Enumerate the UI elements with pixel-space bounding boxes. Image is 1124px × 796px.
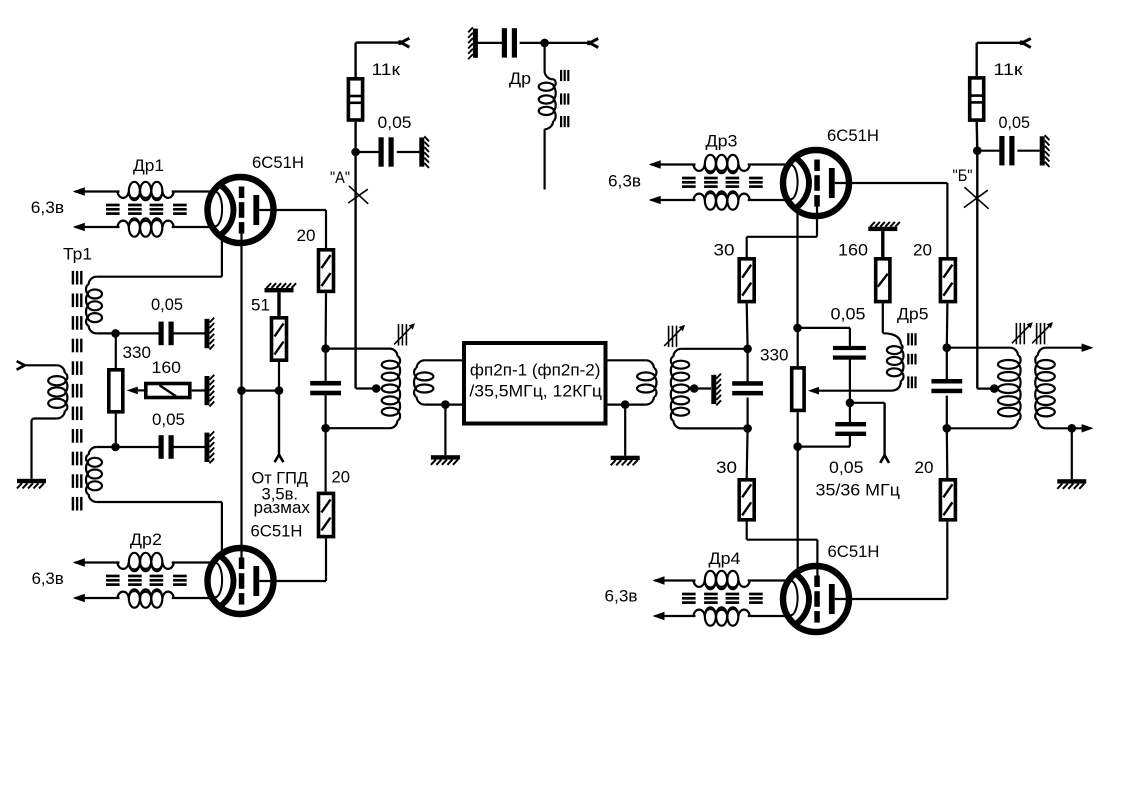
capacitor 0,05 (lower, Тр1) [159, 435, 164, 459]
triode V4 6С51Н [783, 566, 849, 632]
ground (chassis) for 0,05 right [1040, 136, 1045, 165]
wire: output tank top to capacitor [946, 348, 948, 381]
svg-text:330: 330 [123, 344, 152, 362]
node: 51 / ГПД junction [275, 386, 284, 395]
wire: potentiometer 330 to node [115, 414, 117, 447]
wire: capacitor to ground (right) [1017, 150, 1039, 152]
svg-text:Др5: Др5 [897, 306, 929, 324]
svg-text:51: 51 [251, 297, 270, 315]
wire: resistor 30 to tank top [746, 303, 749, 348]
wire: node to capacitor 0,05 [356, 151, 381, 153]
ground (chassis, overhead) for 51 [265, 288, 294, 292]
wire: 0,05 lower to ground [172, 446, 206, 448]
wire: coupling coil top to filter [425, 359, 462, 361]
wire: resistor 20 to output tank top [946, 303, 949, 347]
wire: capacitor to tank bottom (right) [746, 398, 748, 429]
wire: potentiometer to bottom node [797, 412, 799, 446]
inductor Тр1 primary winding [57, 365, 65, 373]
wire: bottom node to V4 cathode [797, 447, 799, 575]
inductor Др3 (heater choke) [651, 163, 696, 165]
wire: tank bottom to resistor 30 (lower) [746, 428, 749, 478]
inductor Др (RF choke, vertical) [545, 71, 554, 79]
resistor 30 (upper) [739, 259, 754, 302]
svg-text:20: 20 [915, 459, 934, 477]
wire: coil to right tank top [681, 348, 747, 350]
wire: tap to ground [694, 387, 711, 389]
wire: V1 anode lead [259, 209, 326, 211]
capacitor output tank [931, 379, 962, 384]
svg-text:6,3в: 6,3в [608, 173, 641, 191]
wire: tank bottom to resistor 20 (V2) [325, 428, 327, 491]
wire: node to ГПД terminal [278, 391, 280, 455]
svg-text:160: 160 [838, 242, 868, 260]
svg-text:Др2: Др2 [130, 531, 162, 549]
wire: tank top to capacitor [325, 349, 327, 381]
svg-text:0,05: 0,05 [152, 411, 185, 429]
wire: V3 anode down to resistor 20 [946, 183, 948, 257]
wire: injection node to capacitor [849, 403, 851, 422]
svg-text:20: 20 [913, 242, 932, 260]
svg-text:35/36 МГц: 35/36 МГц [816, 482, 901, 500]
wire: V3 anode lead [835, 182, 948, 184]
svg-text:6,3в: 6,3в [605, 588, 638, 606]
resistor 51 [272, 318, 287, 360]
wire: supply to resistor 11к (right) [976, 43, 978, 76]
ground (chassis) 0,05 lower [205, 433, 210, 462]
node: grid-2 tank bottom [111, 443, 120, 452]
wire: down to capacitor 0,05 (cathode) [849, 328, 851, 347]
inductor Тр1 secondary upper winding [89, 277, 97, 285]
svg-text:330: 330 [760, 347, 789, 365]
wire: resistor 20 to output tank bottom [946, 428, 949, 478]
resistor 20 (V3 anode) [940, 259, 955, 302]
capacitor 0,05 (V3 cathode) [833, 346, 866, 350]
svg-text:0,05: 0,05 [999, 114, 1031, 132]
svg-text:6С51Н: 6С51Н [828, 543, 880, 561]
wire: cathode node to 0,05 [798, 327, 850, 329]
capacitor 0,05 (anode decoupling left) [379, 137, 384, 166]
resistor 30 (lower) [739, 480, 754, 520]
wire: node to capacitor 0,05 (right) [977, 150, 1001, 152]
ground (chassis) right tank tap [711, 375, 716, 404]
wire: tank top to output primary [947, 347, 1010, 349]
node: potentiometer bottom junction [793, 442, 802, 451]
resistor 20 (V1 anode) [319, 250, 334, 292]
wire: terminal to Тр1 primary [25, 364, 57, 366]
core of Др3 [682, 177, 696, 180]
svg-text:6,3в: 6,3в [32, 570, 64, 588]
terminal (antenna input) Тр1 primary [17, 361, 25, 365]
svg-text:30: 30 [716, 459, 737, 477]
filter ФП2П block [464, 343, 606, 424]
ground (chassis, overhead) for 160 (right) [868, 227, 897, 231]
wiper arrow of potentiometer 330 [127, 387, 138, 395]
wire: V1 cathode lead down [221, 234, 223, 277]
wire: tank top to coil [326, 348, 390, 350]
node: 11к / 0,05 junction (left) [351, 148, 360, 157]
svg-text:6С51Н: 6С51Н [252, 154, 304, 172]
svg-text:размах: размах [254, 499, 311, 517]
svg-text:20: 20 [297, 227, 316, 245]
wire: capacitor to ground [397, 151, 420, 153]
wire: node to ground (filter output) [624, 405, 626, 456]
ground (earth) filter output [611, 456, 640, 460]
svg-text:Др1: Др1 [133, 157, 164, 175]
ground (chassis) 0,05 upper [205, 319, 210, 348]
inductor Др4 (heater choke) [655, 579, 696, 581]
resistor 160 (left, horizontal) [146, 384, 190, 398]
node: filter output ground node [621, 400, 630, 409]
wire: output ground node down [1071, 428, 1073, 479]
wire: tank top to capacitor (right) [746, 349, 748, 383]
wire: filter to output coupling top [607, 359, 646, 361]
terminal (connector) supply A [401, 38, 410, 42]
svg-text:6С51Н: 6С51Н [251, 523, 303, 541]
svg-text:Тр1: Тр1 [63, 246, 92, 264]
capacitor (top center coupling) [502, 28, 507, 57]
arrow output bottom [1082, 424, 1094, 432]
wire: resistor 20 to V2 anode [325, 538, 327, 581]
node: right tank top [743, 345, 752, 354]
inductor output transformer primary [1010, 348, 1018, 356]
node: left tank tap [372, 384, 381, 393]
node: injection node [846, 399, 855, 408]
wire: resistor 51 to grid node [278, 362, 280, 391]
wire: V2 grid up to node [240, 391, 242, 558]
wire: cathode node to potentiometer 330 [797, 328, 799, 366]
wire: junction down to choke Др [543, 43, 545, 71]
tunable core arrow (left tank) [398, 324, 400, 345]
wire: output primary to tank bottom [947, 427, 1010, 429]
svg-text:0,05: 0,05 [151, 296, 183, 314]
wire: resistor 11к to node [354, 122, 356, 152]
terminal 35/36 МГц input [880, 455, 884, 463]
wire: resistor 20 to tank top [325, 293, 328, 348]
core of choke Др [560, 70, 562, 81]
node: V3 cathode junction [793, 324, 802, 333]
wire: V4 anode lead [835, 598, 948, 600]
inductor Др5 (cathode choke) [883, 333, 901, 344]
wire: coil to right tank bottom [681, 427, 747, 429]
wire: grid node bus [242, 390, 280, 392]
ground (earth) output [1057, 479, 1086, 483]
core of Др4 [682, 593, 696, 596]
core of Др5 [907, 333, 909, 345]
resistor 160 (right) [876, 259, 890, 302]
wire: output coupling bottom to filter [607, 404, 646, 406]
wire: node to Тр1 lower winding [97, 446, 116, 448]
wire: supply feed top right [977, 42, 1023, 44]
inductor Др1 (heater choke) [75, 190, 120, 192]
capacitor right tank [732, 381, 763, 386]
wire: secondary top output [1046, 347, 1084, 349]
node: top center junction [540, 39, 549, 48]
wire: 160 to ground [192, 389, 205, 391]
svg-text:6,3в: 6,3в [31, 199, 65, 217]
terminal (connector) top center [590, 39, 599, 43]
ground (earth) Тр1 primary [17, 479, 46, 483]
capacitor 0,05 (anode decoupling right) [999, 136, 1004, 165]
svg-text:"Б": "Б" [953, 167, 973, 185]
inductor Др2 (heater choke) [75, 561, 120, 563]
svg-text:20: 20 [332, 468, 351, 486]
wire: node to 0,05 upper [116, 332, 161, 334]
wire: resistor 160 to choke Др5 [882, 303, 884, 333]
core of Др2 [106, 575, 120, 578]
terminal (connector) supply Б [1022, 38, 1031, 42]
svg-text:30: 30 [714, 242, 735, 260]
inductor left tank coil [390, 349, 398, 357]
arrow output top [1082, 344, 1094, 352]
wire: supply to resistor 11к [354, 43, 356, 77]
wire: ground to resistor 160 [881, 231, 884, 257]
node: right tank tap [690, 384, 699, 393]
tunable core arrow (output 1) [1015, 323, 1017, 344]
triode V3 6С51Н [783, 150, 849, 216]
resistor 11к (right) [970, 78, 984, 120]
wire: node to ground (filter input) [444, 405, 446, 456]
wire: choke Др lead down [543, 129, 545, 189]
node: output ground junction [1068, 424, 1077, 433]
resistor 11к (left) [348, 79, 362, 120]
potentiometer 330 (right) [792, 368, 804, 411]
svg-text:11к: 11к [372, 61, 401, 79]
node: V1 grid junction [237, 386, 246, 395]
node: filter input ground node [441, 400, 450, 409]
wire: 0,05 upper to ground [172, 332, 206, 334]
wire: Тр1 primary to ground [34, 417, 57, 419]
transformer Тр1 core [72, 271, 74, 285]
wire: V3 grid bus [816, 207, 818, 237]
wiper arrow of potentiometer 330 (right) [808, 387, 819, 395]
node: output transformer tap [990, 384, 999, 393]
core of Др1 [106, 204, 120, 207]
inductor output transformer secondary [1038, 348, 1046, 356]
inductor right tank coil [673, 349, 681, 357]
node: output tank top [943, 343, 952, 352]
wire: "Б" to output transformer tap [977, 388, 994, 390]
svg-text:11к: 11к [994, 61, 1024, 79]
wire: line "Б" [976, 151, 978, 389]
wire: "А" line to tank tap [356, 387, 376, 389]
node: 11к / 0,05 junction (right) [973, 146, 982, 155]
ground (chassis) for 160 [205, 376, 210, 405]
inductor filter output coupling coil [646, 360, 654, 368]
cross X at "Б" [965, 187, 989, 209]
wire: coil to tank bottom [326, 427, 390, 429]
wire: capacitor to cathode bus [849, 436, 851, 447]
wire: node to 0,05 lower [116, 446, 161, 448]
svg-text:0,05: 0,05 [378, 114, 412, 132]
node: right tank bottom [743, 424, 752, 433]
svg-text:0,05: 0,05 [829, 459, 864, 477]
wire: Тр1 upper winding to node [97, 332, 116, 334]
capacitor 0,05 (injection coupling) [835, 422, 866, 426]
ground (chassis) for top coupling capacitor [473, 29, 478, 58]
wire: ground to resistor 51 [277, 292, 280, 316]
svg-text:160: 160 [152, 359, 182, 377]
wire: injection node to terminal [850, 402, 885, 404]
svg-text:/35,5МГц, 12КГц: /35,5МГц, 12КГц [469, 382, 602, 401]
ground (earth) filter input [431, 455, 460, 459]
wire: V1 cathode to Тр1 winding [97, 276, 222, 278]
wire: supply feed top left [356, 41, 401, 43]
wire: Тр1 lower winding to V2 cathode [97, 501, 222, 503]
svg-text:"А": "А" [330, 169, 350, 187]
node: grid-1 tank top [111, 329, 120, 338]
wire: V1 anode down to resistor 20 [325, 210, 327, 248]
tunable core arrow (right tank) [668, 326, 670, 347]
wire: grid bus down to resistor 30 [746, 237, 748, 257]
node: left tank bottom [321, 424, 330, 433]
svg-text:Др3: Др3 [706, 133, 738, 151]
wire: capacitor to injection node [849, 359, 851, 403]
terminal ГПД input [275, 455, 279, 463]
wire: capacitor to output tank bottom [946, 396, 948, 429]
node: output tank bottom [943, 424, 952, 433]
wire: line "А" (anode supply to tank tap) [354, 152, 356, 389]
ground (chassis) for 0,05 left [419, 138, 424, 167]
capacitor left tank [310, 381, 341, 386]
svg-text:фп2п-1 (фп2п-2): фп2п-1 (фп2п-2) [470, 361, 601, 380]
wire: V1 grid down to node [240, 233, 242, 391]
wire: V3 cathode down [796, 207, 798, 328]
wire: resistor 11к to node (right) [976, 122, 979, 151]
triode V2 6С51Н [208, 548, 274, 614]
svg-text:6С51Н: 6С51Н [827, 127, 879, 145]
wire: coupling coil bottom to filter [425, 404, 462, 406]
cross X at "А" [349, 186, 368, 204]
svg-text:0,05: 0,05 [831, 306, 866, 324]
node: left tank top [321, 344, 330, 353]
wire: node to potentiometer 330 [115, 333, 117, 368]
inductor Тр1 secondary lower winding [89, 447, 97, 455]
inductor filter input coupling coil [417, 360, 425, 368]
triode V1 6С51Н [208, 177, 274, 243]
resistor 20 (V2 anode) [319, 493, 334, 536]
wire: secondary bottom output [1046, 427, 1084, 429]
wire: resistor 30 to V4 grid [746, 522, 748, 540]
svg-text:Др: Др [509, 70, 531, 88]
svg-text:Др4: Др4 [709, 550, 741, 568]
wire: capacitor to tank bottom [325, 395, 327, 428]
wire: capacitor to heterodyne terminal [520, 42, 590, 44]
wire: ground to coupling capacitor [477, 42, 504, 44]
potentiometer 330 (left) [109, 370, 123, 412]
capacitor 0,05 (upper, Тр1) [159, 322, 164, 346]
tunable core arrow (output 2) [1036, 323, 1038, 344]
resistor 20 (V4 anode) [940, 480, 955, 520]
